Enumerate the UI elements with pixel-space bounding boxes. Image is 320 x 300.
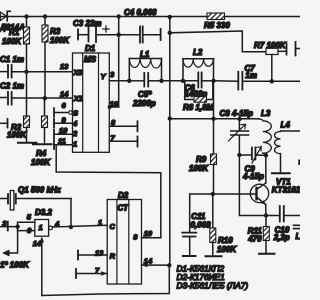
svg-text:R1: R1 <box>9 28 20 37</box>
wire: base network (C11 corner to VT1 base) <box>190 194 256 232</box>
wire: D2 pin10 stub <box>142 237 161 239</box>
node: R9/R10 junction on base wire <box>211 192 215 196</box>
wire: C8 net down to emitter node <box>239 155 265 216</box>
ground bar below R11 <box>259 253 275 255</box>
pin 14 of D3 with arrow <box>33 237 44 296</box>
resistor R4 100K <box>31 98 51 167</box>
node: crystal/gate output junction <box>69 225 73 229</box>
ground bar below R2 <box>18 142 37 144</box>
node: RF row junction at R9 <box>211 117 215 121</box>
svg-text:R: R <box>110 252 116 261</box>
resistor R9 100K <box>189 119 217 194</box>
wire: C2 to D1 pin14 <box>12 97 73 99</box>
wire: L2 tank to C7 <box>214 80 238 82</box>
wire: emitter down to output node <box>265 204 267 215</box>
wire: tank node down to RF row <box>213 81 215 119</box>
ground bar below R10 <box>206 255 222 257</box>
svg-text:L4: L4 <box>281 121 291 130</box>
node: junction R1/C1 wire <box>24 70 28 74</box>
node: bus junction at V2 <box>168 15 172 19</box>
capacitor C6 1400p <box>183 73 214 99</box>
node: D1 pin16 at chip edge <box>108 105 112 109</box>
node: bus junction at R1 <box>24 14 28 18</box>
ground bar below C11 <box>183 255 196 257</box>
svg-text:D3-К561ЛЕ5 (ЛА7): D3-К561ЛЕ5 (ЛА7) <box>177 281 249 291</box>
wire: D1 pin3 to L1 <box>109 80 129 82</box>
svg-text:Q1 500 kHz: Q1 500 kHz <box>18 186 61 195</box>
svg-text:4-15p: 4-15p <box>242 172 264 181</box>
svg-text:2200p: 2200p <box>132 99 156 108</box>
node: V2/C4 coupling junction <box>168 31 172 35</box>
svg-text:R4: R4 <box>36 149 47 158</box>
node: pin14/V2/bottom bus junction <box>167 263 171 267</box>
pin 10 stub with bar <box>54 126 73 138</box>
resistor R7 100K <box>254 41 287 55</box>
resistor R5 330 (inline on bus) <box>204 13 230 30</box>
resistor R2 100K <box>7 72 30 143</box>
wire: gate input network <box>0 222 35 231</box>
resistor R1 100K <box>2 17 30 72</box>
node: L2 left leg junction <box>181 79 185 83</box>
pin 7 stub with bar <box>76 266 107 278</box>
inductor L1 <box>129 50 161 81</box>
svg-text:10: 10 <box>144 229 153 238</box>
svg-text:R3: R3 <box>50 27 61 36</box>
svg-text:C3 22m: C3 22m <box>73 19 101 28</box>
wire: crystal riser to gate output <box>70 199 72 228</box>
node: C7/R7 output junction <box>270 79 274 83</box>
wire: top supply bus <box>0 16 207 18</box>
zener diode VD Д814А <box>0 11 25 32</box>
svg-text:100K: 100K <box>189 164 209 173</box>
svg-text:R6 1,8M: R6 1,8M <box>183 103 214 112</box>
wire: D1 pin11 to D2 pin10 run <box>56 145 161 238</box>
svg-text:MS: MS <box>84 55 97 64</box>
svg-text:1: 1 <box>73 140 77 149</box>
svg-text:L2: L2 <box>193 48 203 57</box>
wire: gate output to D2 pin C <box>53 225 108 227</box>
resistor R10 100K <box>210 194 238 256</box>
node: V2 junction with RF row wire <box>168 116 172 120</box>
inductor L4 <box>275 121 301 173</box>
capacitor C4 0,068 <box>119 8 161 43</box>
pin 9 stub with bar <box>54 115 73 127</box>
svg-text:KT3102: KT3102 <box>272 186 300 195</box>
transistor VT1 КТ3102 <box>250 178 300 205</box>
wire: C7 to output node <box>242 80 271 82</box>
wire: C1 to D1 pin13 <box>12 71 73 73</box>
capacitor C5* 2200p <box>129 73 161 108</box>
pin 7 stub with end bar <box>109 134 137 147</box>
svg-text:X1: X1 <box>73 94 83 103</box>
node: junction C3/C4 wire with V1 <box>117 33 121 37</box>
svg-text:D1: D1 <box>85 44 96 53</box>
svg-text:C8 4-15p: C8 4-15p <box>220 109 253 118</box>
svg-text:100K: 100K <box>7 131 27 140</box>
capacitor C1 1m <box>0 55 24 78</box>
svg-text:L3: L3 <box>261 109 271 118</box>
svg-text:1* 100K: 1* 100K <box>0 261 30 270</box>
wire: L1 tank to L2 tank <box>162 80 184 82</box>
svg-text:R9: R9 <box>196 155 207 164</box>
node: C8 bottom junction <box>237 153 241 157</box>
connector bar at right edge (after R7) <box>296 42 301 56</box>
wire: output node to right edge <box>272 80 300 82</box>
wire: bottom bus <box>42 266 170 296</box>
svg-text:C2 1m: C2 1m <box>0 82 24 91</box>
svg-text:100K: 100K <box>217 245 237 254</box>
svg-text:S: S <box>73 108 78 117</box>
svg-text:2: 2 <box>72 129 78 138</box>
logic gate D3.2 (К561ЛЕ5) <box>35 208 53 236</box>
wire: RF row (V2 to L3) <box>170 118 259 120</box>
node: bus junction at R3 <box>43 14 47 18</box>
capacitor C10 2,2p <box>266 206 300 242</box>
crystal Q1 500 kHz <box>0 186 71 211</box>
svg-text:470: 470 <box>247 235 262 244</box>
capacitor C7 1m <box>238 64 257 90</box>
capacitor C2 1m <box>0 82 24 105</box>
svg-text:R10: R10 <box>218 236 233 245</box>
node: L1 right leg junction <box>159 79 163 83</box>
svg-text:1m: 1m <box>245 71 257 80</box>
wire: collector to L3 node <box>265 155 267 183</box>
svg-text:13: 13 <box>95 249 104 258</box>
svg-text:C1 1m: C1 1m <box>0 55 24 64</box>
wire: gate input to 1* resistor (off page) <box>0 227 30 270</box>
pin 14 of D2 with arrow <box>142 256 170 267</box>
node: emitter junction <box>264 213 268 217</box>
svg-text:100K: 100K <box>31 158 51 167</box>
svg-text:C5*: C5* <box>138 90 152 99</box>
IC D2 К176ИЕ1 (CT) <box>107 191 141 284</box>
svg-text:13: 13 <box>60 62 69 71</box>
wire: R7 to C7 output node <box>271 55 273 82</box>
svg-text:D2: D2 <box>118 191 129 200</box>
resistor R6 1,8M (damping loop) <box>183 81 214 112</box>
node: bus junction at V1 <box>117 14 121 18</box>
wire: V2 vertical (bus to D2 pin14 node) <box>169 17 171 266</box>
svg-text:100K: 100K <box>2 37 22 46</box>
trimmer capacitor C8 4-15p <box>220 109 253 155</box>
node: junction R3/C2 wire <box>43 96 47 100</box>
svg-text:14: 14 <box>60 90 69 99</box>
svg-text:C4 0,068: C4 0,068 <box>124 8 157 17</box>
svg-text:2,2p: 2,2p <box>273 233 290 242</box>
svg-text:R5 330: R5 330 <box>204 21 230 30</box>
svg-text:1: 1 <box>39 223 43 232</box>
svg-text:1: 1 <box>98 218 102 227</box>
inductor L2 <box>183 48 214 81</box>
ground bar below R4 <box>33 143 52 145</box>
node: RF row junction at C8 <box>237 117 241 121</box>
svg-text:D3.2: D3.2 <box>35 208 52 217</box>
pin 13/R stub with bar <box>78 249 107 260</box>
node: L2 right leg junction <box>211 79 215 83</box>
svg-text:C: C <box>110 222 116 231</box>
svg-text:CT: CT <box>118 204 130 213</box>
legend text <box>177 264 249 291</box>
wire: V2 to R7 riser <box>170 31 266 52</box>
svg-text:X0: X0 <box>73 68 84 77</box>
pin 11 stub with bar <box>54 137 73 149</box>
inductor L3 <box>256 109 271 155</box>
trimmer capacitor C9 4-15p <box>239 147 266 181</box>
svg-text:100K: 100K <box>50 36 70 45</box>
svg-text:0,068: 0,068 <box>191 221 212 230</box>
capacitor C3 22m (electrolytic) <box>73 19 119 42</box>
resistor R11 470 <box>247 216 269 254</box>
terminal stub at left edge <box>0 119 8 128</box>
IC D1 К561КП2 (MS) <box>72 44 109 152</box>
svg-text:16: 16 <box>110 100 119 109</box>
cut-off element at right edge <box>294 160 301 242</box>
svg-text:L: L <box>296 232 301 241</box>
resistor R3 100K <box>42 17 70 99</box>
svg-text:L1: L1 <box>140 50 150 59</box>
capacitor C11 0,068 <box>182 212 211 256</box>
node: L1 left leg junction <box>127 79 131 83</box>
pin 6 stub with bar and bubble (S input) <box>54 101 72 117</box>
wire: D1 pin16 hook <box>109 106 118 108</box>
node: L3/C9/collector junction <box>264 153 268 157</box>
ground bar below L4 <box>272 172 290 174</box>
node: gate input junction <box>15 224 19 228</box>
pin 8 stub with end bar <box>109 118 137 131</box>
wire: V1 vertical (bus to D1 pin16) <box>118 17 120 108</box>
